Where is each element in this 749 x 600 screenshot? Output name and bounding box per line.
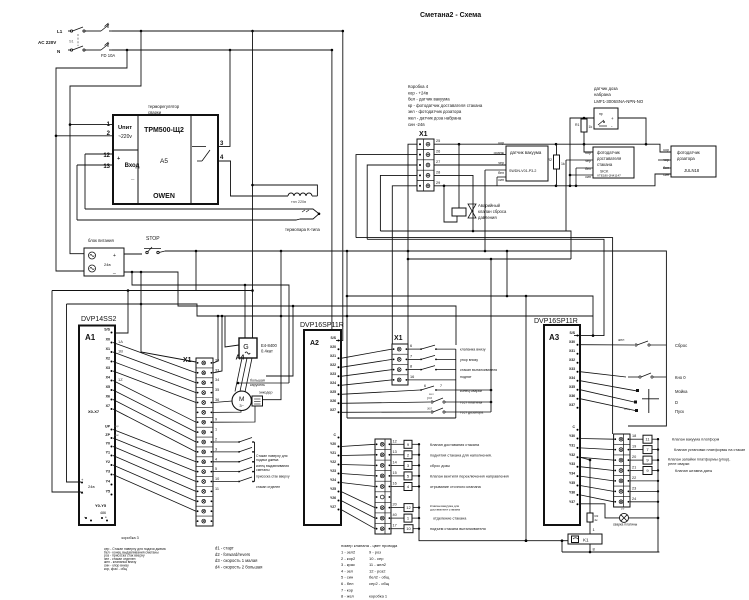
svg-text:тэн 220в: тэн 220в [291, 200, 306, 204]
svg-text:12: 12 [406, 505, 411, 510]
svg-text:X30: X30 [569, 340, 575, 344]
svg-text:Y26: Y26 [330, 496, 336, 500]
svg-text:A4: A4 [236, 355, 245, 362]
svg-text:8: 8 [410, 365, 412, 369]
svg-text:11 - жел2: 11 - жел2 [369, 562, 387, 567]
svg-text:d2 - forward/revers: d2 - forward/revers [215, 552, 250, 557]
svg-text:стакан выталкивателя: стакан выталкивателя [460, 368, 497, 372]
svg-text:E4-8400: E4-8400 [261, 343, 278, 348]
svg-text:DVP16SP11R: DVP16SP11R [534, 318, 578, 325]
svg-text:Клапан доставания стакана: Клапан доставания стакана [430, 443, 480, 447]
svg-text:тест платины: тест платины [460, 401, 483, 405]
svg-text:сварка платины: сварка платины [613, 523, 638, 527]
svg-text:S/S: S/S [104, 328, 110, 332]
svg-text:d1 - старт: d1 - старт [215, 546, 234, 551]
svg-text:24в: 24в [88, 484, 95, 489]
svg-text:35: 35 [215, 388, 219, 392]
svg-text:Клапан вакуума платформ: Клапан вакуума платформ [672, 438, 720, 442]
svg-text:Y32: Y32 [569, 453, 575, 457]
svg-text:S/S: S/S [570, 331, 576, 335]
svg-text:X1: X1 [419, 131, 428, 138]
svg-text:шаг: шаг [114, 433, 119, 437]
svg-text:20: 20 [393, 503, 397, 507]
svg-text:1: 1 [215, 428, 217, 432]
svg-text:5 - син: 5 - син [341, 575, 353, 580]
svg-text:40: 40 [393, 513, 397, 517]
svg-text:14: 14 [393, 460, 397, 464]
svg-text:Y22: Y22 [330, 460, 336, 464]
svg-text:поднятия стакана для наполнени: поднятия стакана для наполнения. [430, 453, 492, 457]
svg-text:ZP: ZP [105, 433, 110, 437]
svg-text:26: 26 [436, 150, 440, 154]
svg-text:Y36: Y36 [569, 490, 575, 494]
svg-text:1k: 1k [589, 125, 593, 129]
svg-text:S/S: S/S [331, 336, 337, 340]
svg-text:+: + [113, 253, 116, 259]
svg-text:X1: X1 [183, 357, 192, 364]
svg-text:36: 36 [215, 398, 219, 402]
svg-text:Y35: Y35 [569, 481, 575, 485]
svg-text:Y3: Y3 [106, 470, 110, 474]
svg-text:Клапан установки платформы на: Клапан установки платформы на стакан [674, 448, 745, 452]
svg-text:X26: X26 [330, 399, 336, 403]
svg-text:сер2 - общ: сер2 - общ [369, 581, 390, 586]
svg-text:1Z: 1Z [118, 377, 123, 382]
svg-text:7: 7 [410, 354, 412, 358]
svg-text:Y27: Y27 [330, 505, 336, 509]
svg-text:кор: кор [585, 151, 591, 155]
svg-text:кор: кор [663, 148, 669, 152]
svg-text:кор - +24в: кор - +24в [408, 90, 429, 95]
svg-text:N: N [57, 49, 60, 54]
svg-text:27: 27 [436, 160, 440, 164]
svg-text:X5: X5 [106, 385, 110, 389]
svg-text:29: 29 [436, 181, 440, 185]
svg-text:X20: X20 [330, 345, 336, 349]
svg-text:JULN18: JULN18 [684, 168, 700, 173]
svg-text:кор, крас - общ: кор, крас - общ [104, 567, 127, 571]
svg-text:бел2 - общ: бел2 - общ [369, 575, 390, 580]
svg-text:6: 6 [410, 344, 412, 348]
svg-text:X0-X7: X0-X7 [88, 409, 100, 414]
svg-text:Аварийный: Аварийный [478, 203, 501, 208]
svg-text:кр - фотодатчик доставателя ст: кр - фотодатчик доставателя стакана [408, 103, 483, 108]
svg-text:X37: X37 [569, 403, 575, 407]
svg-text:Клапан запайки платформы (упор: Клапан запайки платформы (упор), [668, 458, 730, 462]
svg-text:Y5: Y5 [106, 490, 110, 494]
svg-text:4 - зел: 4 - зел [341, 568, 354, 573]
svg-text:0.4кат: 0.4кат [261, 349, 273, 354]
svg-text:R1: R1 [575, 123, 580, 127]
svg-text:UP: UP [105, 425, 111, 429]
svg-text:VTE180-2N41147: VTE180-2N41147 [597, 174, 621, 178]
svg-text:LMF1-3006SNA-NPN-NO: LMF1-3006SNA-NPN-NO [594, 99, 644, 104]
svg-text:Y31: Y31 [569, 443, 575, 447]
svg-text:5: 5 [215, 467, 217, 471]
svg-text:X35: X35 [569, 385, 575, 389]
svg-text:X24: X24 [330, 381, 336, 385]
svg-text:Сброс: Сброс [675, 343, 687, 348]
svg-text:16: 16 [393, 482, 397, 486]
svg-text:12 - роз2: 12 - роз2 [369, 568, 386, 573]
svg-text:терморегулятор: терморегулятор [148, 104, 180, 109]
svg-text:19: 19 [632, 445, 636, 449]
svg-text:d3 - скорость 1 малая: d3 - скорость 1 малая [215, 558, 257, 563]
svg-text:M: M [239, 396, 244, 403]
svg-text:упор внизу: упор внизу [460, 358, 478, 362]
svg-text:STOP: STOP [146, 236, 160, 242]
svg-text:Клапан вентиля переключения на: Клапан вентиля переключения направления [430, 474, 509, 478]
svg-text:доставателя стакана: доставателя стакана [430, 508, 460, 512]
svg-text:X33: X33 [569, 367, 575, 371]
svg-text:доставателя: доставателя [597, 156, 621, 161]
svg-text:зел - фотодатчик дозатора: зел - фотодатчик дозатора [408, 109, 462, 114]
svg-text:бел: бел [498, 171, 504, 175]
svg-text:AC 220V: AC 220V [38, 40, 56, 45]
svg-text:A5: A5 [160, 158, 168, 165]
svg-text:отрывание сточного клапана: отрывание сточного клапана [430, 485, 482, 489]
svg-text:1A: 1A [118, 339, 123, 344]
svg-text:13: 13 [393, 450, 397, 454]
svg-text:23: 23 [632, 486, 636, 490]
svg-text:SWDN-V01-P3-2: SWDN-V01-P3-2 [509, 169, 536, 173]
svg-text:6 - бел: 6 - бел [341, 581, 354, 586]
svg-text:9: 9 [215, 418, 217, 422]
svg-text:X32: X32 [569, 358, 575, 362]
svg-text:18: 18 [632, 434, 636, 438]
svg-text:DVP14SS2: DVP14SS2 [81, 316, 117, 323]
svg-text:Uпит: Uпит [118, 125, 132, 131]
svg-text:X23: X23 [330, 372, 336, 376]
svg-text:ТРМ500-Щ2: ТРМ500-Щ2 [144, 127, 184, 134]
svg-text:3: 3 [215, 447, 217, 451]
svg-text:G: G [243, 344, 248, 351]
svg-text:жел - датчик доза набрана: жел - датчик доза набрана [408, 116, 462, 121]
svg-text:~220v: ~220v [118, 134, 132, 140]
svg-text:клапан сброса: клапан сброса [478, 209, 507, 214]
svg-text:блок питания: блок питания [88, 238, 114, 243]
svg-text:энкодер: энкодер [259, 391, 272, 395]
svg-text:Y2: Y2 [106, 460, 110, 464]
svg-text:большая: большая [250, 379, 265, 383]
svg-text:+: + [117, 156, 120, 162]
svg-text:Мойка: Мойка [675, 389, 688, 394]
svg-text:1k: 1k [561, 162, 565, 166]
svg-text:K1: K1 [583, 538, 589, 543]
svg-text:7: 7 [440, 384, 442, 388]
svg-text:L1: L1 [57, 29, 63, 34]
svg-text:2 - кор2: 2 - кор2 [341, 556, 356, 561]
svg-text:A2: A2 [310, 340, 319, 347]
svg-text:8 - жел: 8 - жел [341, 594, 355, 599]
svg-text:Клапан штампа даты: Клапан штампа даты [675, 469, 713, 473]
svg-text:10: 10 [215, 477, 219, 481]
svg-text:сметаны: сметаны [256, 468, 270, 472]
svg-text:3 - крас: 3 - крас [341, 562, 355, 567]
svg-text:24: 24 [632, 497, 636, 501]
svg-text:Y23: Y23 [330, 469, 336, 473]
svg-text:сброс дозы: сброс дозы [430, 464, 450, 468]
svg-text:11: 11 [215, 487, 219, 491]
svg-text:X2: X2 [106, 357, 110, 361]
svg-text:22: 22 [632, 476, 636, 480]
svg-text:термопара К-типа: термопара К-типа [285, 227, 321, 232]
svg-text:номер клапана - цвет провода: номер клапана - цвет провода [341, 543, 398, 548]
svg-text:4: 4 [215, 457, 217, 461]
svg-text:2: 2 [215, 438, 217, 442]
svg-text:21: 21 [632, 466, 636, 470]
svg-text:S1: S1 [69, 40, 74, 44]
svg-text:15: 15 [393, 471, 397, 475]
svg-text:28: 28 [436, 170, 440, 174]
svg-text:30: 30 [215, 358, 219, 362]
svg-text:34: 34 [215, 378, 219, 382]
svg-text:486: 486 [100, 511, 106, 515]
svg-text:син: син [663, 173, 669, 177]
svg-text:17: 17 [393, 524, 397, 528]
svg-text:d4 - скорость 2 большая: d4 - скорость 2 большая [215, 564, 262, 569]
svg-text:A1: A1 [85, 333, 96, 342]
svg-text:Сметана2 - Схема: Сметана2 - Схема [420, 12, 481, 19]
svg-text:Y1: Y1 [106, 451, 110, 455]
svg-text:подъем стакана выталкивателя: подъем стакана выталкивателя [430, 527, 486, 531]
svg-text:24в: 24в [104, 262, 111, 267]
svg-text:коробка 1: коробка 1 [369, 594, 388, 599]
svg-text:X31: X31 [569, 349, 575, 353]
svg-text:зел: зел [427, 407, 432, 411]
svg-text:пр: пр [599, 112, 603, 116]
svg-text:Y33: Y33 [569, 462, 575, 466]
svg-text:отделение стакана: отделение стакана [433, 517, 467, 521]
svg-text:дозатора: дозатора [677, 156, 695, 161]
svg-text:X1: X1 [394, 335, 403, 342]
svg-text:X1: X1 [106, 347, 110, 351]
svg-text:коробка 3: коробка 3 [122, 536, 139, 540]
svg-text:подачи джема: подачи джема [256, 458, 279, 462]
svg-text:датчик вакуума: датчик вакуума [510, 150, 542, 155]
svg-text:12: 12 [393, 439, 397, 443]
svg-text:оранж: оранж [494, 151, 505, 155]
svg-text:X21: X21 [330, 354, 336, 358]
svg-text:D: D [675, 400, 678, 405]
svg-text:FD 10A: FD 10A [101, 53, 115, 58]
svg-text:Y21: Y21 [330, 451, 336, 455]
svg-text:син: син [498, 178, 504, 182]
svg-text:кор: кор [498, 141, 504, 145]
svg-text:X27: X27 [330, 408, 336, 412]
svg-text:фотодатчик: фотодатчик [677, 150, 700, 155]
svg-text:10: 10 [406, 526, 411, 531]
svg-text:Y24: Y24 [330, 478, 336, 482]
svg-text:Y0-Y5: Y0-Y5 [95, 503, 107, 508]
svg-text:X3: X3 [106, 366, 110, 370]
svg-text:A3: A3 [549, 333, 560, 342]
svg-text:1 - зел2: 1 - зел2 [341, 550, 356, 555]
svg-text:_: _ [130, 175, 135, 181]
svg-text:25: 25 [436, 139, 440, 143]
svg-text:клапанка внизу: клапанка внизу [460, 348, 486, 352]
svg-text:стакан отделен: стакан отделен [256, 485, 280, 489]
svg-text:син -24в: син -24в [408, 122, 425, 127]
svg-text:Y30: Y30 [569, 434, 575, 438]
svg-text:Y25: Y25 [330, 487, 336, 491]
svg-text:OWEN: OWEN [153, 193, 175, 200]
svg-text:X22: X22 [330, 363, 336, 367]
svg-text:набрана: набрана [594, 92, 611, 97]
svg-text:10 - сер: 10 - сер [369, 556, 384, 561]
svg-text:Y0: Y0 [106, 442, 110, 446]
svg-text:X6: X6 [106, 395, 110, 399]
svg-text:+: + [611, 116, 614, 121]
svg-text:Кно 0: Кно 0 [675, 375, 686, 380]
svg-text:давления: давления [478, 215, 497, 220]
svg-text:жел: жел [618, 338, 624, 342]
svg-text:датчик доза: датчик доза [594, 86, 618, 91]
svg-text:реле сварки: реле сварки [668, 462, 689, 466]
svg-text:X36: X36 [569, 394, 575, 398]
svg-text:X7: X7 [106, 404, 110, 408]
svg-text:роз: роз [427, 396, 433, 400]
svg-text:3~: 3~ [239, 403, 244, 408]
svg-text:20: 20 [632, 455, 636, 459]
svg-text:33: 33 [215, 368, 219, 372]
svg-text:фотодатчик: фотодатчик [597, 150, 620, 155]
svg-text:стакана: стакана [597, 162, 613, 167]
svg-text:тест дозатора: тест дозатора [460, 411, 483, 415]
svg-text:X34: X34 [569, 376, 575, 380]
svg-text:УГ: УГ [621, 507, 625, 511]
svg-text:бел - датчик вакуума: бел - датчик вакуума [408, 97, 450, 102]
svg-text:1B: 1B [118, 349, 123, 354]
svg-text:DVP16SP11R: DVP16SP11R [300, 322, 344, 329]
svg-text:чер: чер [498, 161, 504, 165]
svg-text:Пуск: Пуск [675, 409, 684, 414]
svg-text:конец сварки: конец сварки [460, 389, 482, 393]
svg-text:Y34: Y34 [569, 472, 575, 476]
svg-text:X25: X25 [330, 390, 336, 394]
svg-text:син: син [585, 175, 591, 179]
svg-text:6: 6 [424, 384, 426, 388]
svg-text:Y4: Y4 [106, 480, 110, 484]
svg-text:Y20: Y20 [330, 442, 336, 446]
svg-text:поднят: поднят [460, 375, 472, 379]
svg-text:Вход: Вход [125, 163, 140, 169]
svg-text:пер: пер [114, 424, 119, 428]
svg-text:16: 16 [410, 375, 414, 379]
svg-text:_: _ [112, 269, 116, 275]
svg-text:Y37: Y37 [569, 500, 575, 504]
svg-text:Коробка 4: Коробка 4 [408, 84, 429, 89]
svg-text:X0: X0 [106, 338, 110, 342]
svg-text:R2: R2 [548, 158, 553, 162]
svg-text:7 - кор: 7 - кор [341, 587, 354, 592]
svg-text:карусель: карусель [250, 383, 265, 387]
svg-text:X4: X4 [106, 376, 110, 380]
svg-text:9 - роз: 9 - роз [369, 550, 381, 555]
svg-text:присоска стак вверху: присоска стак вверху [256, 475, 290, 479]
